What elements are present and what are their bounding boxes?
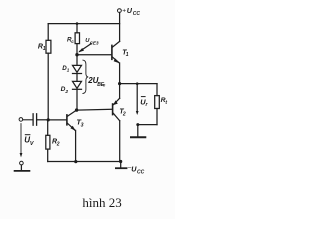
svg-text:3: 3 (81, 122, 84, 128)
svg-text:c: c (71, 39, 74, 44)
svg-text:CC: CC (133, 11, 141, 17)
svg-text:r: r (146, 102, 149, 108)
svg-text:+: + (122, 8, 126, 15)
svg-text:V: V (30, 141, 34, 147)
svg-text:hình 23: hình 23 (82, 195, 121, 210)
svg-text:2: 2 (64, 89, 68, 95)
svg-text:2: 2 (122, 111, 126, 117)
svg-text:1: 1 (126, 52, 129, 58)
svg-text:CE3: CE3 (90, 41, 99, 46)
svg-text:t: t (165, 100, 167, 106)
svg-text:2: 2 (56, 141, 60, 147)
svg-text:0: 0 (103, 83, 106, 88)
svg-text:CC: CC (137, 169, 145, 175)
svg-text:1: 1 (43, 46, 46, 52)
svg-text:1: 1 (67, 68, 70, 73)
